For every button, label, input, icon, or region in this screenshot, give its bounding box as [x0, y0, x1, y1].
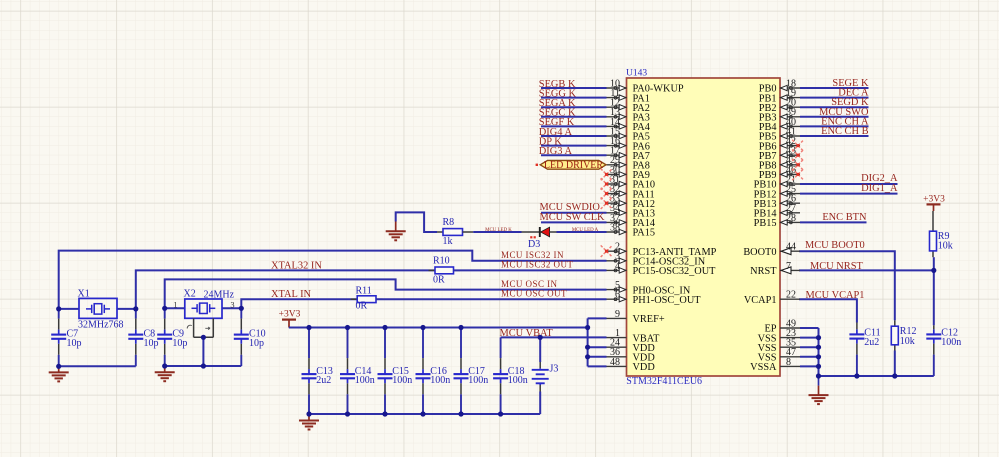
svg-text:LED DRIVER: LED DRIVER: [544, 160, 603, 171]
svg-text:10p: 10p: [144, 338, 159, 349]
pin 6 PH1-OSC_OUT: [607, 290, 702, 306]
svg-text:ENC CH B: ENC CH B: [821, 126, 868, 137]
wire net MCU_SWDIO: [541, 212, 607, 214]
wire net ENC_BTN: [800, 221, 867, 223]
pin 3 PC14-OSC32_IN: [607, 251, 706, 267]
pin 30 PA9: [607, 165, 650, 181]
svg-text:10k: 10k: [900, 336, 915, 347]
pin 38 PA15: [607, 222, 656, 238]
pin 14 PA4: [607, 117, 650, 133]
svg-text:MCU NRST: MCU NRST: [810, 261, 863, 272]
wire net SEGE_K: [800, 87, 869, 89]
svg-text:0R: 0R: [356, 301, 368, 312]
no-connect X on PB8: [792, 159, 804, 171]
wire net MCU_SWO: [800, 116, 869, 118]
label X1 32MHz768: [78, 289, 124, 331]
pin 36 VDD: [607, 347, 656, 363]
svg-text:7: 7: [786, 261, 791, 272]
svg-text:+3V3: +3V3: [279, 309, 301, 319]
label X2 24MHz: [184, 289, 235, 301]
svg-text:28: 28: [786, 213, 796, 224]
svg-text:+3V3: +3V3: [923, 195, 945, 205]
pin 25 PB12: [754, 184, 800, 200]
wire decoupling ground rail: [309, 413, 540, 415]
svg-text:PB15: PB15: [754, 218, 777, 229]
svg-text:100n: 100n: [355, 375, 375, 386]
svg-text:PC15-OSC32_OUT: PC15-OSC32_OUT: [633, 266, 717, 277]
pin 33 PA12: [607, 194, 656, 210]
wire net SEGB_K: [541, 87, 607, 89]
svg-text:10p: 10p: [67, 338, 82, 349]
svg-text:MCU VBAT: MCU VBAT: [500, 328, 554, 339]
svg-text:10k: 10k: [938, 240, 953, 251]
no-connect X on PB7: [792, 149, 804, 161]
label D3: [528, 236, 540, 250]
svg-text:6: 6: [615, 290, 620, 301]
wire net MCU_ISC32_IN (X1 pin1 to PC14): [59, 251, 607, 309]
capacitor C16: [416, 328, 431, 415]
pin 9 VREF+: [607, 309, 665, 325]
svg-text:XTAL IN: XTAL IN: [271, 289, 312, 300]
svg-text:32MHz768: 32MHz768: [78, 320, 124, 331]
resistor R10: [435, 267, 454, 274]
svg-text:1: 1: [173, 299, 177, 309]
svg-text:24MHz: 24MHz: [204, 289, 235, 300]
wire net DIG3_A: [541, 154, 607, 156]
svg-text:MCU OSC OUT: MCU OSC OUT: [501, 288, 567, 298]
ground GND near R8: [386, 222, 406, 241]
wire +3V3 rail: [289, 327, 588, 329]
no-connect X on PA9: [601, 169, 613, 181]
pin 28 PB15: [754, 213, 800, 229]
wire net ENC_CH_B: [800, 135, 869, 137]
resistor R11: [357, 296, 376, 303]
wire net SEGA_K: [541, 106, 607, 108]
svg-text:BOOT0: BOOT0: [743, 247, 776, 258]
pin 10 PA0-WKUP: [607, 78, 684, 94]
label C9 10p: [172, 328, 187, 349]
svg-text:R10: R10: [433, 255, 450, 266]
capacitor C10: [234, 308, 249, 366]
pin 5 PH0-OSC_IN: [607, 280, 691, 296]
pin 44 BOOT0: [743, 242, 800, 258]
label C13 2u2: [316, 366, 333, 386]
wire net MCU_NRST: [799, 269, 934, 271]
svg-text:100n: 100n: [508, 375, 528, 386]
power +3V3 R9 pullup: [923, 195, 945, 212]
svg-text:ENC BTN: ENC BTN: [822, 212, 867, 223]
capacitor C8: [128, 309, 143, 366]
capacitor C12: [926, 325, 941, 376]
wire VSS collection: [800, 328, 819, 376]
no-connect X on PA12: [601, 197, 613, 209]
battery J3: [532, 337, 549, 414]
svg-text:PA15: PA15: [633, 228, 656, 239]
wire ground rail right: [819, 375, 934, 377]
svg-text:44: 44: [786, 242, 796, 253]
power +3V3 left rail: [279, 309, 301, 327]
svg-text:22: 22: [786, 290, 796, 301]
ground GND X1: [49, 366, 69, 381]
svg-text:MCU LED K: MCU LED K: [485, 228, 512, 233]
crystal X1: [59, 298, 136, 318]
pin 34 PA13: [607, 203, 656, 219]
wire net DIG2_A: [800, 183, 898, 185]
svg-text:D3: D3: [528, 239, 540, 250]
pin 46 PB9: [759, 165, 800, 181]
pin 32 PA11: [607, 184, 655, 200]
wire D3 to PA15 net MCU_LED_A: [549, 231, 607, 233]
pin 13 PA3: [607, 107, 650, 123]
label R11 0R: [356, 285, 372, 311]
diode D3 (LED): [540, 227, 550, 237]
label C16 100n: [430, 366, 450, 386]
svg-text:VDD: VDD: [633, 362, 656, 373]
label R10 0R: [433, 255, 450, 285]
capacitor C7: [51, 309, 66, 366]
pin 29 PA8: [607, 155, 650, 171]
svg-text:MCU BOOT0: MCU BOOT0: [805, 240, 865, 251]
wire net SEGD_K: [800, 106, 869, 108]
pin 42 PB6: [759, 136, 800, 152]
pin 26 PB13: [754, 194, 800, 210]
resistor R12: [891, 326, 898, 345]
capacitor C15: [378, 328, 393, 415]
svg-text:VSSA: VSSA: [750, 362, 777, 373]
pin 24 VDD: [607, 338, 656, 354]
pin 4 PC15-OSC32_OUT: [607, 261, 717, 277]
ground GND right: [809, 376, 829, 404]
svg-text:J3: J3: [550, 364, 559, 375]
pin 35 VSS: [758, 338, 800, 354]
resistor R8: [443, 229, 463, 236]
wire net SEGC_K: [541, 116, 607, 118]
label C10 10p: [249, 328, 266, 349]
pin 17 PA7: [607, 146, 650, 162]
wire R8 to D3 net MCU_LED_K: [463, 231, 540, 233]
label C15 100n: [392, 366, 412, 386]
pin 31 PA10: [607, 174, 656, 190]
svg-text:DIG3 A: DIG3 A: [539, 146, 573, 157]
label C14 100n: [355, 366, 375, 386]
svg-text:1k: 1k: [443, 236, 453, 247]
label C11 2u2: [864, 327, 880, 348]
svg-text:0R: 0R: [433, 274, 445, 285]
svg-text:2u2: 2u2: [864, 337, 879, 348]
svg-text:XTAL32 IN: XTAL32 IN: [271, 260, 322, 271]
wire VDD distribution: [588, 318, 607, 366]
no-connect X on PA10: [601, 178, 613, 190]
pin 47 VSS: [758, 347, 800, 363]
svg-text:U143: U143: [626, 68, 647, 78]
label C7 10p: [67, 328, 82, 349]
pin 1 VBAT: [607, 328, 661, 344]
svg-text:X2: X2: [184, 289, 196, 300]
wire net MCU_OSC_IN (X2 pin1 to PH0): [165, 279, 607, 308]
port LED_DRIVER: [536, 160, 606, 171]
resistor R9: [930, 231, 937, 251]
label C18 100n: [508, 366, 528, 386]
svg-text:2u2: 2u2: [316, 375, 331, 386]
pin 39 PB3: [759, 107, 800, 123]
wire net DIG4_A: [541, 135, 607, 137]
pin 27 PB14: [754, 203, 800, 219]
label R9 10k: [938, 231, 953, 252]
svg-text:VCAP1: VCAP1: [744, 295, 777, 306]
svg-text:9: 9: [615, 309, 620, 320]
pin 8 VSSA: [750, 357, 800, 373]
X2 case ground pins: [187, 318, 213, 366]
wire R8 ground riser: [396, 212, 437, 232]
wire net ENC_CH_A: [800, 125, 869, 127]
wire R8 left pin: [437, 231, 443, 233]
svg-text:MCU ISC32 OUT: MCU ISC32 OUT: [501, 260, 573, 270]
wire X2 ground rail: [165, 365, 242, 367]
svg-text:MCU SW CLK: MCU SW CLK: [540, 212, 606, 223]
resistor R12 pins: [894, 320, 896, 376]
wire net SEGF_K: [541, 125, 607, 127]
pin 12 PA2: [607, 98, 650, 114]
svg-text:100n: 100n: [941, 337, 961, 348]
pin 48 VDD: [607, 357, 656, 373]
pin 22 VCAP1: [744, 290, 800, 306]
svg-text:100n: 100n: [468, 375, 488, 386]
label C17 100n: [468, 366, 488, 386]
wire net MCU_OSC_OUT (R11 to PH1): [376, 298, 607, 300]
wire X1 ground rail: [59, 365, 136, 367]
capacitor C11: [849, 323, 864, 377]
R11 pins: [351, 298, 383, 300]
pin 19 PB1: [759, 88, 800, 104]
pin 15 PA5: [607, 126, 650, 142]
pin 23 VSS: [758, 328, 800, 344]
capacitor C9: [157, 308, 172, 366]
svg-text:R8: R8: [443, 217, 455, 228]
svg-text:VREF+: VREF+: [633, 314, 665, 325]
no-connect X on PB9: [792, 169, 804, 181]
svg-text:10p: 10p: [172, 338, 187, 349]
resistor R9 pins: [932, 211, 935, 270]
wire NRST to C12: [933, 270, 935, 325]
capacitor C13: [302, 328, 317, 415]
pin 11 PA1: [607, 88, 650, 104]
capacitor C14: [340, 328, 355, 415]
ground GND decoupling: [299, 414, 319, 430]
label R12 10k: [900, 326, 917, 347]
crystal X2 24MHz: [165, 299, 242, 318]
pin 16 PA6: [607, 136, 650, 152]
wire net XTAL32_IN (X1 pin2 up): [136, 270, 435, 309]
wire net MCU_VCAP1: [799, 299, 857, 322]
pin 2 PC13-ANTI_TAMP: [607, 242, 717, 258]
wire net DIG1_A: [800, 193, 898, 195]
svg-text:NRST: NRST: [750, 266, 777, 277]
no-connect X on PB6: [792, 140, 804, 152]
svg-text:10p: 10p: [249, 338, 264, 349]
pin 45 PB8: [759, 155, 800, 171]
label R8 1k: [443, 217, 455, 247]
capacitor C18: [493, 337, 508, 414]
pin 43 PB7: [759, 146, 800, 162]
MCU U143 STM32F411CEU6 body: [627, 78, 781, 376]
pin 49 EP: [764, 318, 800, 334]
wire net DP_K: [541, 145, 607, 147]
svg-text:100n: 100n: [392, 375, 412, 386]
label C12 100n: [941, 327, 961, 348]
wire net MCU_VBAT: [501, 336, 607, 338]
capacitor C17: [454, 328, 469, 415]
pin 41 PB5: [759, 126, 800, 142]
pin 37 PA14: [607, 213, 656, 229]
no-connect X on PA11: [601, 188, 613, 200]
pin 18 PB0: [759, 78, 800, 94]
no-connect X on PC13: [601, 245, 613, 257]
label C8 10p: [144, 328, 159, 349]
svg-text:8: 8: [786, 357, 791, 368]
svg-text:R11: R11: [356, 285, 372, 296]
svg-text:STM32F411CEU6: STM32F411CEU6: [626, 376, 702, 387]
svg-text:PH1-OSC_OUT: PH1-OSC_OUT: [633, 295, 702, 306]
wire net MCU_BOOT0: [799, 251, 895, 320]
pin 21 PB10: [754, 174, 800, 190]
svg-text:38: 38: [610, 222, 620, 233]
svg-text:X1: X1: [78, 289, 90, 300]
wire net SEGG_K: [541, 97, 607, 99]
wire net XTAL_IN (X2 pin3 up): [241, 299, 357, 308]
R10 pins: [429, 269, 461, 271]
svg-text:MCU LED A: MCU LED A: [572, 228, 599, 233]
wire net MCU_SW_CLK: [541, 221, 607, 223]
pin 40 PB4: [759, 117, 800, 133]
svg-text:MCU VCAP1: MCU VCAP1: [806, 290, 865, 301]
wire net MCU_ISC32_OUT (R10 to PC15): [454, 269, 607, 271]
svg-text:DIG1_A: DIG1_A: [861, 183, 898, 194]
pin 20 PB2: [759, 98, 800, 114]
svg-text:48: 48: [610, 357, 620, 368]
pin 7 NRST: [750, 261, 800, 277]
svg-text:100n: 100n: [430, 375, 450, 386]
svg-text:MCU ISC32 IN: MCU ISC32 IN: [501, 250, 564, 260]
wire net DEC_A: [800, 97, 869, 99]
svg-text:4: 4: [615, 261, 620, 272]
ground GND X2: [155, 366, 175, 381]
svg-text:3: 3: [230, 299, 234, 309]
